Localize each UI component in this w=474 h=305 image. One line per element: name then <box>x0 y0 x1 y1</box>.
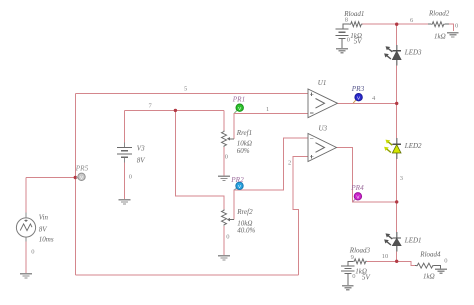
svg-text:Rload3: Rload3 <box>349 247 371 255</box>
svg-text:LED2: LED2 <box>404 142 422 150</box>
svg-text:60%: 60% <box>237 147 250 155</box>
svg-text:10ms: 10ms <box>39 236 54 244</box>
svg-text:2: 2 <box>288 160 291 167</box>
svg-text:3: 3 <box>400 175 403 182</box>
svg-text:0: 0 <box>444 258 447 265</box>
svg-text:U3: U3 <box>319 125 328 133</box>
svg-text:8V: 8V <box>39 226 48 234</box>
svg-text:1: 1 <box>266 106 269 113</box>
svg-text:LED3: LED3 <box>404 49 422 57</box>
svg-text:PR2: PR2 <box>230 176 244 184</box>
svg-text:PR1: PR1 <box>232 96 245 104</box>
svg-text:Rload2: Rload2 <box>428 10 450 18</box>
svg-text:PR4: PR4 <box>350 184 364 192</box>
svg-text:U1: U1 <box>318 79 327 87</box>
svg-text:1kΩ: 1kΩ <box>423 273 435 281</box>
svg-text:0: 0 <box>129 174 132 181</box>
svg-text:Vin: Vin <box>39 214 49 222</box>
svg-text:Rload1: Rload1 <box>343 10 364 18</box>
svg-text:5: 5 <box>184 86 187 93</box>
svg-text:5V: 5V <box>362 274 371 282</box>
svg-text:5V: 5V <box>354 38 363 46</box>
svg-text:PR3: PR3 <box>351 85 365 93</box>
svg-text:9: 9 <box>351 254 354 261</box>
svg-text:LED1: LED1 <box>404 237 422 245</box>
svg-text:10: 10 <box>382 253 389 260</box>
svg-text:40.0%: 40.0% <box>237 226 255 234</box>
svg-text:1kΩ: 1kΩ <box>434 33 446 41</box>
svg-text:Rref2: Rref2 <box>236 208 253 216</box>
svg-text:Rref1: Rref1 <box>236 129 252 137</box>
svg-text:0: 0 <box>226 233 229 240</box>
svg-text:8V: 8V <box>137 157 146 165</box>
svg-text:Rload4: Rload4 <box>419 251 441 259</box>
svg-text:V3: V3 <box>137 145 145 153</box>
svg-text:0: 0 <box>31 249 34 256</box>
svg-text:0: 0 <box>455 23 458 30</box>
svg-text:PR5: PR5 <box>75 164 89 172</box>
svg-text:0: 0 <box>225 154 228 161</box>
